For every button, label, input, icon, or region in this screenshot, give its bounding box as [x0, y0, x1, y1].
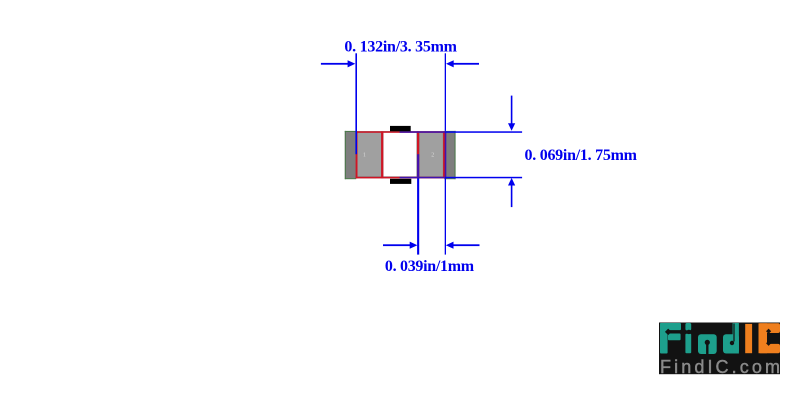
- svg-text:0. 039in/1mm: 0. 039in/1mm: [385, 258, 475, 275]
- svg-text:1: 1: [363, 153, 366, 159]
- svg-text:0. 132in/3. 35mm: 0. 132in/3. 35mm: [344, 38, 457, 55]
- svg-text:0. 069in/1. 75mm: 0. 069in/1. 75mm: [525, 147, 638, 164]
- svg-text:2: 2: [431, 153, 434, 159]
